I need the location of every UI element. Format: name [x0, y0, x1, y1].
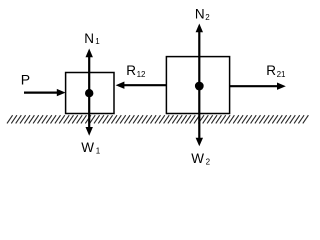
svg-text:P: P	[21, 71, 30, 87]
svg-text:2: 2	[205, 13, 210, 22]
svg-text:2: 2	[206, 158, 211, 167]
svg-text:12: 12	[137, 70, 146, 79]
svg-text:N: N	[84, 31, 94, 46]
svg-text:W: W	[191, 151, 204, 166]
svg-text:R: R	[126, 63, 136, 78]
svg-text:N: N	[195, 7, 205, 22]
svg-text:21: 21	[277, 70, 286, 79]
svg-text:1: 1	[95, 37, 100, 46]
svg-text:W: W	[81, 140, 94, 155]
svg-text:1: 1	[96, 146, 101, 155]
svg-text:R: R	[266, 63, 276, 78]
